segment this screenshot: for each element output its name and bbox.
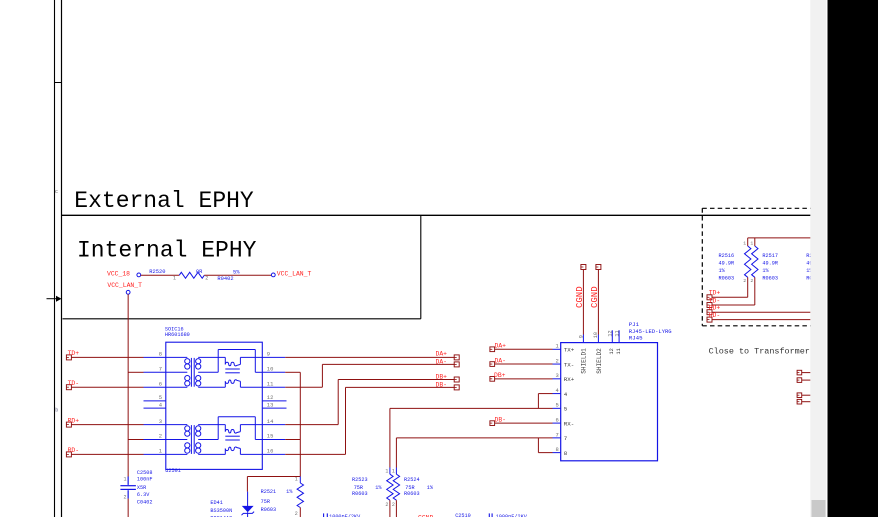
svg-text:R0603: R0603: [261, 507, 277, 513]
terminal DA+ (RJ45 side): [490, 347, 495, 352]
terminal RD+ (left): [66, 422, 71, 427]
pin 1 stub R2521: [299, 477, 301, 484]
transformer U2501 body: [166, 342, 262, 469]
svg-text:2: 2: [159, 433, 162, 440]
wire R2520 to VCC_LAN_T: [204, 274, 271, 276]
wire RD+ to transformer: [71, 424, 143, 426]
pin 3 stub PJ1: [553, 378, 561, 380]
section separator line: [62, 214, 811, 216]
svg-text:R0603: R0603: [404, 491, 420, 497]
wire pin15 horizontal: [285, 439, 300, 441]
svg-text:RD-: RD-: [68, 447, 80, 454]
node VCC_LAN_T rail pin: [126, 290, 130, 294]
wire DA- horizontal: [322, 363, 454, 365]
svg-text:1%: 1%: [375, 485, 382, 491]
svg-text:6: 6: [159, 380, 162, 387]
svg-text:12: 12: [267, 394, 274, 401]
svg-text:R2521: R2521: [261, 489, 277, 495]
wire termination rail: [748, 237, 811, 239]
svg-text:11: 11: [616, 348, 622, 354]
wire pin14 horizontal: [285, 424, 338, 426]
svg-text:5%: 5%: [233, 270, 240, 276]
svg-text:TX-: TX-: [564, 361, 574, 368]
terminal TD+ (left): [66, 355, 71, 360]
svg-text:BS3500N: BS3500N: [210, 508, 232, 514]
svg-text:R2517: R2517: [762, 253, 778, 259]
svg-text:RD-: RD-: [709, 312, 721, 319]
svg-text:VCC_LAN_T: VCC_LAN_T: [277, 271, 312, 278]
svg-text:13: 13: [267, 401, 274, 408]
svg-text:1%: 1%: [762, 268, 769, 274]
svg-text:2: 2: [392, 502, 395, 508]
pin 4 stub U2501: [144, 407, 166, 409]
svg-text:1: 1: [123, 476, 126, 482]
svg-text:10: 10: [267, 366, 274, 373]
svg-text:1: 1: [385, 468, 388, 474]
svg-text:11: 11: [267, 380, 274, 387]
terminal TD- (left): [66, 385, 71, 390]
wire DB- to PJ1 pin 6: [495, 422, 553, 424]
wire pin11 vertical: [321, 364, 323, 387]
wire R2517 bottom to TD-: [754, 277, 756, 305]
pin 5 stub PJ1: [553, 407, 561, 409]
wire pin8 PJ1: [538, 452, 552, 454]
svg-text:2: 2: [205, 276, 208, 282]
pin 12 stub PJ1 top: [611, 330, 613, 342]
wire pin7-pin8 tie: [537, 438, 539, 453]
terminal DA- (transformer side): [454, 362, 459, 367]
pin 7 stub U2501: [144, 371, 166, 373]
pin 7 stub PJ1: [553, 437, 561, 439]
svg-text:75R: 75R: [405, 485, 414, 491]
wire pin4-pin5 tie: [537, 394, 539, 409]
wire pin16 horizontal: [285, 453, 345, 455]
svg-text:100nF: 100nF: [137, 477, 153, 483]
terminal CGND 2: [596, 265, 601, 270]
wire pin16 vertical: [345, 387, 347, 454]
pin 11 stub U2501: [262, 386, 285, 388]
svg-text:CGND: CGND: [590, 286, 600, 308]
pin 9 stub U2501: [262, 356, 285, 358]
svg-text:TD+: TD+: [709, 290, 721, 297]
svg-text:2: 2: [750, 278, 753, 284]
pin 6 stub U2501: [144, 386, 166, 388]
svg-text:6.3V: 6.3V: [137, 492, 150, 498]
wire TD- to transformer: [71, 386, 143, 388]
svg-text:1: 1: [750, 241, 753, 247]
wire right-edge 2: [802, 379, 811, 381]
svg-text:2: 2: [743, 278, 746, 284]
pin 2 stub PJ1: [553, 363, 561, 365]
svg-text:RX-: RX-: [564, 420, 574, 427]
svg-text:c: c: [55, 189, 58, 195]
wire to diode ED41: [247, 476, 300, 478]
svg-text:DA+: DA+: [495, 343, 507, 350]
wire pin10/pin15 vertical: [299, 372, 301, 476]
pin 14 stub U2501: [262, 424, 285, 426]
svg-text:8: 8: [159, 351, 162, 358]
pin 5 stub U2501: [144, 400, 166, 402]
border zone arrow marker: [47, 298, 58, 300]
svg-text:8: 8: [564, 450, 568, 457]
diode ED41 BS3500N: [242, 492, 255, 517]
white gap: [826, 0, 827, 517]
svg-text:11: 11: [615, 330, 621, 336]
wire CGND 1: [582, 270, 584, 335]
svg-text:RD+: RD+: [709, 305, 721, 312]
terminal RD- (left): [66, 452, 71, 457]
resistor R2521 body: [297, 483, 303, 508]
svg-text:2: 2: [295, 511, 298, 517]
svg-text:R0603: R0603: [762, 276, 778, 282]
svg-text:b: b: [55, 408, 58, 414]
svg-text:R0603: R0603: [719, 276, 735, 282]
svg-text:C2510: C2510: [455, 513, 471, 517]
svg-text:7: 7: [555, 431, 558, 438]
terminal right-edge 4: [797, 399, 802, 404]
transformer winding group B (pins 3-1 / 14-16): [166, 417, 262, 455]
svg-text:49.9R: 49.9R: [719, 261, 735, 267]
pin 10 stub PJ1 top: [597, 335, 599, 343]
wire CGND 2: [597, 270, 599, 335]
transformer winding group A (pins 8-6 / 9-11): [166, 350, 262, 388]
svg-text:C2508: C2508: [137, 470, 153, 476]
svg-text:Close to Transformer: Close to Transformer: [709, 347, 810, 357]
terminal right-edge 2: [797, 378, 802, 383]
terminal RD- (dashed box): [707, 317, 712, 322]
svg-text:VCC_18: VCC_18: [107, 271, 130, 278]
terminal DA+ (transformer side): [454, 355, 459, 360]
svg-text:6: 6: [555, 417, 558, 424]
wire below resistor x=396.4: [395, 500, 397, 517]
svg-text:75R: 75R: [261, 499, 270, 505]
svg-text:12: 12: [607, 330, 613, 336]
svg-text:75R: 75R: [354, 485, 363, 491]
border zone tick: [55, 82, 62, 84]
svg-text:R0402: R0402: [217, 276, 233, 282]
terminal DB- (transformer side): [454, 385, 459, 390]
pin 6 stub PJ1: [553, 422, 561, 424]
svg-text:HR601680: HR601680: [165, 332, 190, 338]
pin 11 stub PJ1 top: [618, 330, 620, 342]
wire TD- dashed box: [712, 304, 755, 306]
svg-text:RD+: RD+: [68, 417, 80, 424]
pin 3 stub U2501: [144, 424, 166, 426]
wire right-edge 3: [802, 394, 811, 396]
svg-text:7: 7: [159, 366, 162, 373]
wire DB+ to PJ1 pin 3: [495, 378, 553, 380]
pin 1 stub R at x=389.9: [389, 468, 391, 475]
svg-text:2: 2: [555, 357, 558, 364]
svg-text:R2523: R2523: [352, 477, 368, 483]
sheet border inner line: [61, 0, 63, 517]
svg-text:1%: 1%: [427, 485, 434, 491]
wire pin7 PJ1 to R2524: [396, 437, 552, 439]
wire rail to pin 2: [128, 439, 143, 441]
capacitor C2508: [120, 477, 135, 499]
svg-text:RJ45: RJ45: [629, 334, 643, 341]
resistor body at x=389.9: [387, 474, 393, 500]
svg-text:TD+: TD+: [68, 350, 80, 357]
pin 15 stub U2501: [262, 439, 285, 441]
resistor R2516 body: [745, 246, 751, 277]
svg-text:12: 12: [609, 348, 615, 354]
sheet border outer line: [54, 0, 56, 517]
svg-text:Internal EPHY: Internal EPHY: [77, 238, 257, 264]
svg-text:15: 15: [267, 433, 274, 440]
wire pin5 PJ1 to R2523: [390, 407, 553, 409]
resistor R2517 body: [752, 246, 758, 277]
terminal DB+ (transformer side): [454, 377, 459, 382]
wire pin11 horizontal: [285, 386, 322, 388]
wire RD- to transformer: [71, 453, 143, 455]
wire right-edge 4: [802, 401, 811, 403]
svg-text:8: 8: [555, 446, 558, 453]
pin 8 stub PJ1: [553, 452, 561, 454]
svg-text:1: 1: [295, 477, 298, 483]
svg-text:9: 9: [578, 335, 584, 338]
wire R2516 bottom to TD+: [747, 277, 749, 297]
wire DA- to PJ1 pin 2: [495, 363, 553, 365]
svg-text:10: 10: [593, 332, 599, 338]
svg-text:DB+: DB+: [435, 374, 447, 381]
pin 9 stub PJ1 top: [582, 335, 584, 343]
svg-text:5: 5: [564, 406, 568, 413]
wire below R2521: [299, 508, 301, 518]
svg-text:1: 1: [392, 468, 395, 474]
svg-text:CGND: CGND: [575, 286, 585, 308]
svg-text:C0402: C0402: [137, 500, 153, 506]
wire TD+ to transformer: [71, 356, 143, 358]
pin 10 stub U2501: [262, 371, 285, 373]
svg-text:4: 4: [564, 391, 568, 398]
svg-text:TD-: TD-: [68, 380, 80, 387]
svg-text:0R: 0R: [196, 269, 203, 275]
pin 4 stub PJ1: [553, 393, 561, 395]
pin 8 stub U2501: [144, 356, 166, 358]
svg-text:1%: 1%: [286, 489, 293, 495]
resistor body at x=396.4: [393, 474, 399, 500]
svg-text:DB+: DB+: [494, 372, 506, 379]
terminal right-edge 1: [797, 370, 802, 375]
svg-text:TD-: TD-: [709, 297, 721, 304]
wire VCC_18 to R2520: [141, 274, 180, 276]
wire pin4 PJ1: [538, 393, 552, 395]
pin 1 stub R at x=396.4: [395, 468, 397, 475]
pin 12 stub U2501: [262, 400, 286, 402]
svg-text:14: 14: [267, 418, 274, 425]
svg-text:3: 3: [555, 372, 558, 379]
resistor R2520 body: [179, 272, 204, 278]
svg-text:49.9R: 49.9R: [762, 261, 778, 267]
terminal DB+ (RJ45 side): [490, 377, 495, 382]
svg-text:TX+: TX+: [564, 347, 575, 354]
svg-text:SHIELD1: SHIELD1: [580, 348, 587, 374]
wire R2517 top: [754, 238, 756, 246]
svg-text:5: 5: [555, 402, 558, 409]
wire diode vertical: [246, 477, 248, 492]
dashed box around termination resistors: [702, 208, 812, 325]
svg-text:5: 5: [159, 394, 162, 401]
black panel right: [828, 0, 878, 517]
scrollbar thumb: [812, 500, 826, 517]
wire pin14 vertical: [337, 380, 339, 425]
terminal CGND 1: [581, 265, 586, 270]
svg-text:7: 7: [564, 435, 568, 442]
scrollbar track: [810, 0, 826, 517]
terminal DA- (RJ45 side): [490, 362, 495, 367]
wire VCC_LAN_T vertical rail: [127, 294, 129, 476]
Internal EPHY box right edge: [420, 215, 422, 318]
svg-text:1: 1: [743, 241, 746, 247]
RJ45 connector PJ1 body: [561, 343, 658, 461]
terminal RD+ (dashed box): [707, 310, 712, 315]
wire DA+ to PJ1 pin 1: [495, 348, 553, 350]
svg-text:DB-: DB-: [495, 417, 507, 424]
svg-text:U2501: U2501: [165, 468, 181, 474]
wire DB+ horizontal: [338, 379, 454, 381]
pin 1 stub U2501: [144, 453, 166, 455]
wire down to R2523: [389, 408, 391, 467]
svg-text:3: 3: [159, 418, 162, 425]
svg-text:16: 16: [267, 448, 274, 455]
capacitor symbol 2 (clipped, bottom): [489, 513, 492, 517]
capacitor symbol (clipped, bottom): [324, 513, 328, 517]
pin 1 stub PJ1: [553, 348, 561, 350]
pin 16 stub U2501: [262, 453, 285, 455]
svg-text:1: 1: [173, 276, 176, 282]
Internal EPHY box bottom edge: [63, 318, 421, 320]
svg-text:R2516: R2516: [719, 253, 735, 259]
wire below C2508: [127, 499, 129, 517]
svg-text:R2524: R2524: [404, 477, 420, 483]
node VCC_18 open pin: [137, 273, 141, 277]
svg-text:SHIELD2: SHIELD2: [596, 348, 603, 374]
wire rail to pin 7: [128, 371, 143, 373]
wire pin9 to DA+: [285, 356, 454, 358]
svg-text:2: 2: [123, 495, 126, 501]
wire down to R2524: [395, 438, 397, 468]
svg-text:External EPHY: External EPHY: [74, 188, 254, 214]
svg-text:9: 9: [267, 351, 270, 358]
wire right-edge 1: [802, 372, 811, 374]
svg-text:DB-: DB-: [435, 382, 447, 389]
svg-text:VCC_LAN_T: VCC_LAN_T: [107, 282, 142, 289]
svg-text:ED41: ED41: [210, 500, 222, 506]
svg-text:DA+: DA+: [435, 351, 447, 358]
svg-text:RX+: RX+: [564, 376, 575, 383]
svg-text:2: 2: [385, 502, 388, 508]
svg-text:R2520: R2520: [149, 269, 165, 275]
wire below resistor x=389.9: [389, 500, 391, 517]
wire TD+ dashed box: [712, 296, 748, 298]
node VCC_LAN_T open pin: [271, 273, 275, 277]
wire DB- horizontal: [346, 386, 455, 388]
wire pin10 horizontal: [285, 371, 300, 373]
terminal TD+ (dashed box): [707, 295, 712, 300]
wire RD+ dashed box: [712, 311, 811, 313]
svg-text:1%: 1%: [719, 268, 726, 274]
terminal right-edge 3: [797, 393, 802, 398]
svg-text:DA-: DA-: [435, 359, 447, 366]
svg-text:DA-: DA-: [495, 357, 507, 364]
terminal TD- (dashed box): [707, 303, 712, 308]
wire RD- dashed box: [712, 319, 811, 321]
pin 2 stub U2501: [144, 439, 166, 441]
pin 13 stub U2501: [262, 407, 286, 409]
svg-text:R0603: R0603: [352, 491, 368, 497]
svg-text:X5R: X5R: [137, 485, 146, 491]
terminal DB- (RJ45 side): [490, 421, 495, 426]
wire R2516 top: [747, 238, 749, 246]
